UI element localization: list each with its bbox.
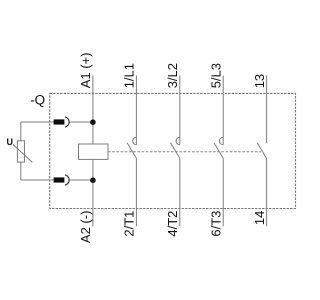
svg-text:1/L1: 1/L1 (122, 63, 137, 88)
svg-text:4/T2: 4/T2 (165, 211, 180, 237)
svg-text:U: U (7, 137, 14, 147)
svg-text:5/L3: 5/L3 (208, 63, 223, 88)
svg-text:14: 14 (252, 211, 267, 225)
svg-text:13: 13 (252, 74, 267, 88)
svg-text:A1 (+): A1 (+) (78, 53, 93, 89)
svg-text:3/L2: 3/L2 (165, 63, 180, 88)
svg-text:A2 (-): A2 (-) (78, 211, 93, 244)
svg-text:2/T1: 2/T1 (122, 211, 137, 237)
svg-text:-Q: -Q (30, 92, 45, 107)
svg-text:6/T3: 6/T3 (208, 211, 223, 237)
